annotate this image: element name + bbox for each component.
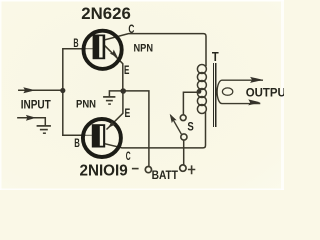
svg-text:OUTPUT: OUTPUT — [246, 86, 284, 100]
svg-text:B: B — [74, 136, 80, 150]
svg-text:E: E — [124, 64, 130, 77]
svg-text:T: T — [212, 49, 219, 64]
svg-text:C: C — [128, 22, 134, 36]
svg-text:E: E — [125, 107, 131, 120]
svg-text:S: S — [187, 120, 193, 134]
svg-text:C: C — [126, 149, 131, 163]
svg-text:BATT: BATT — [152, 169, 179, 182]
svg-text:2NIOI9: 2NIOI9 — [80, 162, 129, 179]
svg-text:INPUT: INPUT — [21, 99, 52, 112]
svg-text:PNN: PNN — [76, 99, 96, 111]
svg-text:NPN: NPN — [134, 43, 154, 55]
svg-text:B: B — [73, 36, 78, 50]
svg-text:2N626: 2N626 — [81, 4, 131, 23]
